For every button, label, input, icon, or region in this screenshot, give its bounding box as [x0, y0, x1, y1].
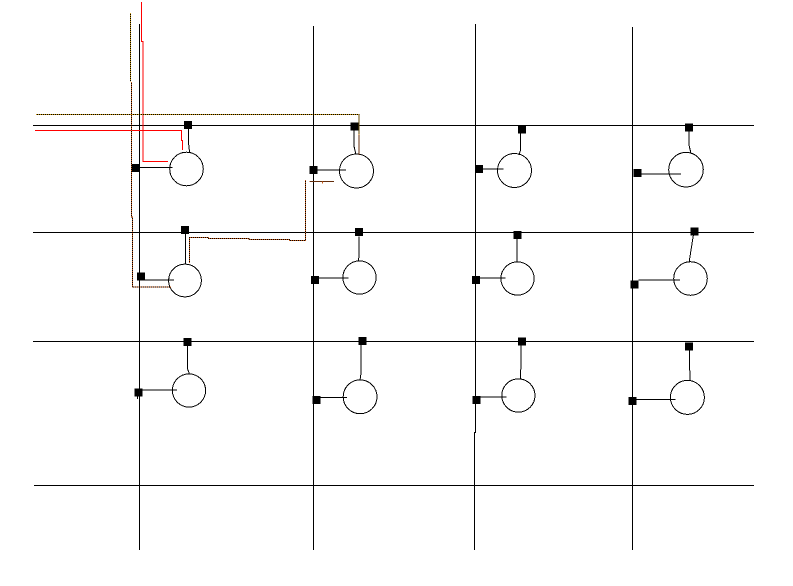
- net ORANGE: pin drop beside R1C2 stem (orange dashes): [358, 135, 360, 155]
- top pin square R1C3: [518, 126, 526, 134]
- left pin square R3C4: [629, 397, 637, 405]
- left pin wire R1C3: [483, 168, 504, 170]
- left pin wire R2C3: [480, 277, 506, 279]
- top pin wire R1C2: [354, 131, 356, 155]
- left pin wire R2C1: [145, 279, 175, 281]
- top pin wire R3C1: [187, 346, 189, 374]
- net GOLD: upper vertical segment (gold dashes): [130, 13, 132, 82]
- top pin square R2C4: [691, 228, 699, 236]
- left pin square R3C3: [473, 396, 481, 404]
- top pin square R1C4: [685, 124, 693, 132]
- left pin square R1C2: [310, 166, 318, 174]
- top pin wire R3C3: [519, 346, 522, 380]
- top pin square R3C2: [359, 337, 367, 345]
- net ORANGE: stub segment (orange dashes): [310, 180, 335, 182]
- top pin square R3C4: [685, 343, 693, 351]
- logic block circle R1C1: [170, 152, 204, 186]
- vertical channel line V4: [632, 27, 634, 550]
- left pin wire R1C1: [140, 167, 173, 169]
- net ORANGE: channel segment to R2C1 (orange dashes): [190, 180, 306, 263]
- left pin wire R1C4: [642, 173, 682, 175]
- net GOLD: upper vertical segment (black base): [130, 13, 132, 82]
- left pin square R2C3: [472, 276, 480, 284]
- top pin wire R2C3: [516, 239, 519, 262]
- logic block circle R2C3: [501, 262, 534, 295]
- top pin square R2C2: [355, 228, 363, 236]
- net ORANGE: stub tick: [321, 181, 323, 183]
- net GOLD: long horizontal segment (black base): [36, 114, 359, 154]
- left pin square R3C1: [135, 389, 143, 397]
- logic block circle R2C2: [343, 261, 376, 294]
- horizontal channel line H3: [33, 341, 754, 343]
- top pin wire R1C4: [689, 132, 691, 153]
- left pin square R1C3: [475, 165, 483, 173]
- vertical channel line V3 upper: [475, 24, 477, 433]
- top pin square R1C2: [351, 123, 359, 131]
- top pin wire R1C3: [519, 134, 521, 156]
- vertical channel line V1: [139, 24, 141, 550]
- logic block circle R1C4: [669, 152, 704, 187]
- top pin wire R3C4: [689, 350, 690, 381]
- logic block circle R3C3: [502, 379, 535, 412]
- horizontal channel line H2: [33, 232, 754, 234]
- left pin wire R2C2: [319, 277, 349, 279]
- top pin square R2C3: [514, 231, 522, 239]
- logic block circle R1C3: [498, 154, 532, 188]
- left pin stub R3C1: [136, 397, 138, 400]
- left pin wire R3C1: [143, 389, 178, 391]
- net ORANGE: stub segment (black base): [310, 180, 335, 182]
- logic block circle R3C4: [670, 380, 704, 414]
- logic block circle R2C1: [169, 264, 202, 297]
- left pin square R3C2: [313, 396, 321, 404]
- logic block circle R3C1: [172, 374, 205, 407]
- top pin wire R1C1: [188, 129, 189, 153]
- left pin wire R2C4: [639, 279, 681, 281]
- logic block circle R2C4: [674, 262, 708, 296]
- net ORANGE: left vertical segment (black base): [131, 82, 171, 287]
- left pin wire R1C2: [318, 169, 347, 171]
- left pin wire R3C3: [481, 396, 507, 398]
- logic block circle R1C2: [340, 154, 374, 188]
- vertical channel line V2: [313, 26, 315, 550]
- top pin square R1C1: [184, 121, 192, 129]
- horizontal channel line H1: [33, 125, 754, 127]
- top pin wire R2C4: [689, 236, 693, 263]
- left pin square R2C1: [137, 273, 145, 281]
- net RED: vertical trunk wire: [142, 2, 169, 161]
- horizontal channel line H4: [34, 485, 754, 487]
- net GOLD: long horizontal segment (gold dashes): [36, 114, 359, 134]
- net RED: horizontal branch wire: [35, 130, 183, 150]
- left pin wire R3C2: [321, 396, 347, 398]
- net ORANGE: channel segment to R2C1 (black base): [190, 180, 306, 263]
- left pin square R1C4: [634, 169, 642, 177]
- top pin wire R2C2: [358, 237, 361, 262]
- left pin square R2C4: [631, 281, 639, 289]
- top pin square R3C1: [184, 338, 192, 346]
- left pin square R2C2: [311, 276, 319, 284]
- logic block circle R3C2: [343, 380, 377, 414]
- top pin wire R3C2: [360, 345, 361, 380]
- left pin wire R3C4: [637, 399, 676, 401]
- top pin wire R2C1: [185, 234, 187, 264]
- net ORANGE: left vertical segment (orange dashes): [131, 82, 171, 287]
- top pin square R2C1: [181, 226, 189, 234]
- left pin square R1C1: [132, 164, 140, 172]
- top pin square R3C3: [518, 338, 526, 346]
- vertical channel line V3 lower: [474, 432, 476, 550]
